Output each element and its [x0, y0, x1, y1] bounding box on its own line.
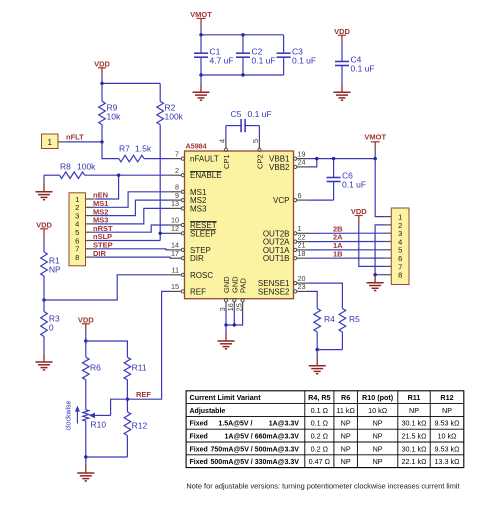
right connector pin 1: [384, 213, 402, 222]
svg-text:NP: NP: [409, 406, 419, 415]
right connector pin 6: [384, 254, 402, 263]
resistor R2 100k: [157, 83, 184, 240]
right connector pin 3: [384, 229, 402, 238]
svg-text:NP: NP: [341, 444, 351, 453]
svg-text:0.1 Ω: 0.1 Ω: [311, 419, 329, 428]
net label MS3: [93, 216, 108, 225]
junction VMOT rail / C1: [199, 33, 202, 36]
svg-text:C5: C5: [231, 109, 242, 119]
svg-text:ROSC: ROSC: [190, 271, 213, 280]
svg-text:11: 11: [172, 266, 179, 275]
svg-text:nFAULT: nFAULT: [190, 155, 219, 164]
net label 1B: [333, 249, 343, 258]
svg-text:13: 13: [171, 199, 179, 208]
svg-text:R8: R8: [60, 161, 71, 171]
U1 pin 7 nFAULT: [170, 149, 219, 163]
svg-text:VDD: VDD: [78, 316, 94, 325]
svg-text:VDD: VDD: [94, 60, 110, 69]
ground below C4: [334, 84, 351, 100]
capacitor C4: [335, 43, 375, 84]
svg-text:11 kΩ: 11 kΩ: [336, 406, 355, 415]
svg-text:Fixed: Fixed: [190, 434, 208, 441]
left connector pin 6: [75, 236, 94, 245]
svg-text:1.5k: 1.5k: [135, 144, 152, 154]
svg-text:15: 15: [171, 282, 179, 291]
note text: [186, 481, 459, 490]
svg-text:25: 25: [234, 303, 243, 311]
svg-text:REF: REF: [136, 390, 151, 399]
wire MS2 net: [95, 200, 170, 216]
svg-text:9.53 kΩ: 9.53 kΩ: [435, 419, 461, 428]
svg-text:VCP: VCP: [273, 196, 289, 205]
resistor R3 0: [41, 300, 60, 354]
svg-text:R7: R7: [119, 144, 130, 154]
svg-text:R6: R6: [341, 393, 350, 402]
U1 pin 9 MS2: [170, 191, 208, 205]
svg-text:Adjustable: Adjustable: [190, 408, 226, 415]
U1 pin 10 RESET: [170, 216, 217, 230]
clockwise annotation: [66, 400, 80, 430]
svg-text:R11: R11: [132, 363, 147, 373]
svg-text:VBB2: VBB2: [269, 163, 290, 172]
svg-text:R12: R12: [132, 421, 148, 431]
U1 pin 4 CP1: [217, 139, 231, 169]
U1 pin 18 OUT1B: [263, 249, 309, 263]
junction REF / R11 / R12: [126, 398, 129, 401]
wire nFAULT net down from junction: [102, 142, 119, 159]
svg-text:2: 2: [175, 166, 179, 175]
svg-text:Fixed: Fixed: [190, 421, 208, 428]
svg-text:Current Limit Variant: Current Limit Variant: [190, 393, 262, 402]
svg-text:NP: NP: [442, 406, 452, 415]
svg-text:22.1 kΩ: 22.1 kΩ: [402, 457, 428, 466]
wire nSLP net: [95, 240, 161, 242]
current limit table: [186, 391, 464, 468]
U1 pin 25 PAD: [234, 278, 247, 312]
wire VBB2 riser: [309, 159, 317, 167]
svg-text:18: 18: [298, 249, 306, 258]
wire 2A net: [309, 241, 385, 243]
junction VDD / R9: [100, 82, 103, 85]
net label 2A: [333, 233, 343, 242]
U1 pin 16 GND: [226, 276, 239, 312]
svg-text:30.1 kΩ: 30.1 kΩ: [402, 419, 428, 428]
wire nEN riser: [95, 175, 119, 199]
junction nFLT / R9: [100, 140, 103, 143]
left connector pin 3: [75, 211, 94, 220]
svg-text:1A@3.3V: 1A@3.3V: [269, 421, 300, 428]
svg-text:8: 8: [398, 271, 402, 280]
svg-text:0.1 uF: 0.1 uF: [248, 109, 272, 119]
ground below sense resistors: [309, 350, 326, 374]
svg-text:R4: R4: [324, 314, 335, 324]
wire ROSC net: [44, 275, 170, 300]
resistor R1 NP: [41, 252, 61, 300]
wire SENSE1 net: [309, 283, 343, 308]
svg-text:Fixed: Fixed: [190, 459, 208, 466]
IC U1 A5984 body: [185, 151, 294, 299]
svg-text:nFLT: nFLT: [66, 132, 84, 141]
net label nSLP: [93, 232, 112, 241]
junction bottom rail / C2: [241, 73, 244, 76]
junction pin 8 ground: [373, 273, 376, 276]
resistor R12: [124, 399, 147, 457]
wire REF net from pin 15: [127, 291, 169, 399]
U1 pin 20 SENSE1: [258, 274, 309, 288]
U1 pin 12 SLEEP: [170, 224, 217, 238]
svg-text:100k: 100k: [77, 161, 96, 171]
resistor R8 100k: [44, 161, 119, 178]
junction bottom rail / C1: [199, 73, 202, 76]
power flag VDD (right connector): [351, 207, 367, 223]
svg-text:NP: NP: [49, 265, 61, 275]
wire SLEEP net: [160, 232, 169, 234]
resistor R9 10k: [99, 83, 121, 141]
connector pin 1 nFLT: [42, 134, 67, 149]
table row Adjustable: [190, 406, 453, 415]
svg-text:0.2 Ω: 0.2 Ω: [311, 444, 329, 453]
left connector pin 1: [75, 195, 94, 204]
right connector pin 2: [384, 221, 402, 230]
svg-text:R6: R6: [90, 363, 101, 373]
net label MS2: [93, 207, 108, 216]
svg-text:VDD: VDD: [36, 221, 52, 230]
capacitor C1: [194, 35, 234, 75]
svg-text:NP: NP: [373, 419, 383, 428]
U1 pin 8 MS1: [170, 183, 208, 197]
svg-text:10 kΩ: 10 kΩ: [438, 432, 458, 441]
wire VMOT bottom rail to ground: [201, 74, 284, 76]
svg-text:NP: NP: [373, 432, 383, 441]
connector 1x8 (right): [391, 208, 409, 285]
wire nFLT: [66, 141, 102, 143]
svg-text:13.3 kΩ: 13.3 kΩ: [435, 457, 461, 466]
U1 pin 21 OUT1A: [263, 241, 309, 255]
junction divider ground: [84, 455, 87, 458]
svg-text:0.1 uF: 0.1 uF: [351, 64, 375, 74]
U1 pin 24 VBB2: [269, 158, 308, 172]
svg-text:R10 (pot): R10 (pot): [362, 393, 394, 402]
right connector pin 7: [384, 262, 402, 271]
junction R8 / nEN / ENABLE: [117, 174, 120, 177]
svg-text:REF: REF: [190, 287, 206, 296]
svg-text:24: 24: [298, 158, 306, 167]
U1 pin 13 MS3: [170, 199, 208, 213]
svg-text:clockwise: clockwise: [66, 400, 73, 430]
wire 1B net: [309, 257, 385, 259]
net label DIR: [93, 249, 107, 258]
svg-text:9.53 kΩ: 9.53 kΩ: [435, 444, 461, 453]
svg-text:10k: 10k: [107, 112, 121, 122]
capacitor C6: [309, 159, 367, 201]
net label nEN: [93, 191, 108, 200]
svg-text:4: 4: [217, 139, 226, 143]
svg-text:0.1 uF: 0.1 uF: [252, 56, 276, 66]
U1 pin 11 ROSC: [170, 266, 214, 280]
ground at R8: [36, 175, 53, 200]
potentiometer R10: [83, 399, 128, 457]
svg-text:7: 7: [175, 149, 179, 158]
junction sense ground: [316, 348, 319, 351]
U1 pin 5 CP2: [251, 139, 265, 169]
svg-text:0.47 Ω: 0.47 Ω: [309, 457, 331, 466]
capacitor C3: [277, 35, 317, 75]
wire R12 bottom to ground: [86, 456, 128, 458]
svg-text:8: 8: [75, 253, 79, 262]
svg-text:SLEEP: SLEEP: [190, 229, 216, 238]
junction VDD / R6 / R11: [84, 339, 87, 342]
wire MS3 net: [95, 208, 170, 224]
U1 pin 6 VCP: [273, 191, 308, 205]
junction R1 / R3 / ROSC: [42, 298, 45, 301]
ground below divider: [77, 457, 94, 481]
left connector pin 4: [75, 220, 94, 229]
U1 pin 15 REF: [170, 282, 207, 296]
wire MS1 net: [95, 192, 170, 208]
left connector pin 7: [75, 245, 94, 254]
wire ground pins 2 and 8: [375, 225, 384, 275]
svg-text:SENSE2: SENSE2: [258, 287, 290, 296]
svg-text:30.1 kΩ: 30.1 kΩ: [402, 444, 428, 453]
right connector pin 5: [384, 246, 402, 255]
table header row: [190, 393, 454, 402]
junction VMOT rail / C2: [241, 33, 244, 36]
net label 1A: [333, 241, 343, 250]
svg-text:R4, R5: R4, R5: [308, 393, 330, 402]
left connector pin 8: [75, 253, 94, 262]
svg-text:DIR: DIR: [190, 254, 204, 263]
wire nRST net: [95, 225, 170, 232]
svg-text:1: 1: [47, 138, 52, 147]
svg-text:MS3: MS3: [190, 204, 207, 213]
U1 pin 3 GND: [218, 276, 231, 312]
svg-text:R12: R12: [440, 393, 453, 402]
svg-text:VMOT: VMOT: [364, 133, 386, 142]
svg-text:4.7 uF: 4.7 uF: [210, 56, 234, 66]
svg-text:100k: 100k: [165, 112, 184, 122]
wire VDD to R11: [86, 341, 128, 357]
svg-text:VMOT: VMOT: [190, 10, 212, 19]
resistor R11: [124, 357, 147, 399]
resistor R4: [314, 309, 335, 350]
junction C6 / rail: [332, 157, 335, 160]
capacitor C2: [236, 35, 276, 75]
resistor R5: [339, 309, 360, 350]
svg-text:CP1: CP1: [222, 154, 231, 169]
svg-text:NP: NP: [341, 419, 351, 428]
svg-text:21.5 kΩ: 21.5 kΩ: [402, 432, 428, 441]
wire VDD to pin 7: [359, 224, 384, 267]
svg-text:DIR: DIR: [93, 249, 107, 258]
svg-text:1.5A@5V /: 1.5A@5V /: [218, 421, 252, 428]
svg-text:Note for adjustable versions:: Note for adjustable versions: turning po…: [186, 481, 459, 490]
wire 2B net: [309, 232, 385, 234]
net label 2B: [333, 224, 343, 233]
connector 1x8 (left): [69, 193, 86, 266]
table row Fixed 1A@5V / 660mA@3.3V: [190, 432, 458, 441]
power flag VMOT (right): [364, 133, 386, 159]
svg-text:0.2 Ω: 0.2 Ω: [311, 432, 329, 441]
junction GND pin 16: [233, 323, 236, 326]
svg-text:OUT1B: OUT1B: [263, 254, 290, 263]
svg-text:Fixed: Fixed: [190, 446, 208, 453]
U1 pin 2 ENABLE: [170, 166, 222, 180]
svg-text:1A@5V / 660mA@3.3V: 1A@5V / 660mA@3.3V: [225, 434, 300, 441]
right connector pin 4: [384, 237, 402, 246]
svg-text:R5: R5: [349, 314, 360, 324]
svg-text:6: 6: [298, 191, 302, 200]
capacitor C5: [226, 109, 272, 140]
svg-text:ENABLE: ENABLE: [190, 171, 222, 180]
wire VDD rail to R2: [102, 82, 160, 84]
svg-text:A5984: A5984: [186, 142, 207, 151]
U1 pin 19 VBB1: [269, 149, 308, 163]
svg-text:23: 23: [298, 282, 306, 291]
ground below R3: [36, 354, 53, 370]
table row Fixed 500mA@5V / 330mA@3.3V: [190, 457, 461, 466]
wire GND pins to ground: [226, 311, 243, 326]
ground below IC: [218, 325, 235, 349]
svg-text:750mA@5V / 500mA@3.3V: 750mA@5V / 500mA@3.3V: [211, 446, 300, 453]
svg-text:R10: R10: [91, 420, 107, 430]
U1 pin 1 OUT2B: [263, 224, 309, 238]
net label nRST: [93, 224, 113, 233]
wire SENSE2 net: [309, 291, 318, 308]
power flag VDD (divider): [78, 316, 94, 342]
wire 1A net: [309, 249, 385, 251]
junction GND pin 3: [224, 323, 227, 326]
svg-text:0.1 uF: 0.1 uF: [292, 56, 316, 66]
svg-text:0: 0: [49, 323, 54, 333]
resistor R6: [83, 341, 102, 410]
wire STEP net: [95, 249, 170, 250]
net label MS1: [93, 199, 108, 208]
power flag VDD (R1): [36, 221, 52, 253]
U1 pin 23 SENSE2: [258, 282, 309, 296]
wire R5 to ground junction: [317, 349, 342, 351]
svg-text:PAD: PAD: [239, 278, 248, 293]
svg-text:1B: 1B: [333, 249, 343, 258]
net label STEP: [93, 241, 113, 250]
svg-text:0.1 Ω: 0.1 Ω: [311, 406, 329, 415]
power flag VDD (C4): [334, 27, 350, 43]
net label REF: [136, 390, 151, 399]
net label nFLT: [66, 132, 84, 141]
svg-text:R11: R11: [408, 393, 421, 402]
power flag VDD (R9/R2): [94, 60, 110, 84]
svg-text:12: 12: [171, 224, 179, 233]
power flag VMOT (top): [190, 10, 212, 35]
svg-text:5: 5: [251, 139, 260, 143]
right connector pin 8: [384, 271, 402, 280]
svg-text:CP2: CP2: [255, 154, 264, 169]
svg-text:NP: NP: [373, 457, 383, 466]
table row Fixed 1.5A@5V /|1A@3.3V: [190, 419, 461, 428]
resistor R7 1.5k: [119, 144, 170, 162]
IC name A5984: [186, 142, 207, 151]
junction VMOT / rail: [374, 157, 377, 160]
svg-text:17: 17: [171, 249, 179, 258]
svg-text:500mA@5V / 330mA@3.3V: 500mA@5V / 330mA@3.3V: [211, 459, 300, 466]
wire ENABLE net: [119, 174, 170, 176]
left connector pin 2: [75, 203, 94, 212]
junction R2 / SLEEP: [159, 232, 162, 235]
svg-text:NP: NP: [373, 444, 383, 453]
svg-text:NP: NP: [341, 457, 351, 466]
U1 pin 22 OUT2A: [263, 232, 309, 246]
svg-text:VDD: VDD: [351, 207, 367, 216]
junction VBB2 / rail: [315, 157, 318, 160]
ground at right connector: [367, 275, 384, 291]
wire VMOT top rail: [201, 34, 284, 36]
wire VBB rail: [309, 158, 376, 160]
U1 pin 17 DIR: [170, 249, 205, 263]
wire DIR net: [95, 257, 172, 258]
svg-text:10 kΩ: 10 kΩ: [368, 406, 388, 415]
wire VMOT to pin 1 of right connector: [375, 159, 384, 217]
svg-text:0.1 uF: 0.1 uF: [342, 180, 366, 190]
svg-text:NP: NP: [341, 432, 351, 441]
U1 pin 14 STEP: [170, 241, 211, 255]
left connector pin 5: [75, 228, 94, 237]
table row Fixed 750mA@5V / 500mA@3.3V: [190, 444, 461, 453]
ground below C1: [193, 75, 210, 100]
